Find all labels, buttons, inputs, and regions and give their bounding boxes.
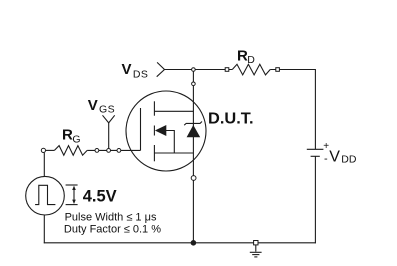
- svg-text:Pulse Width ≤ 1 μs: Pulse Width ≤ 1 μs: [65, 211, 157, 223]
- wire: pulse generator to bottom rail: [43, 215, 45, 244]
- battery VDD negative plate: [311, 155, 320, 157]
- probe arrow VDS test point: [157, 62, 165, 76]
- node circle on drain lead: [192, 82, 196, 86]
- mosfet body wire to source: [166, 131, 175, 154]
- terminal square right of RD: [276, 68, 280, 72]
- wire: bottom ground rail: [44, 242, 316, 244]
- node circle at RG left: [41, 148, 45, 152]
- node circle at drain rail junction: [192, 68, 196, 72]
- probe stem VGS test point: [103, 115, 115, 148]
- svg-text:-: -: [324, 153, 328, 165]
- measurement extension lines for 4.5V: [66, 185, 78, 205]
- node circle gate terminal 1: [95, 149, 99, 153]
- label RD: [237, 47, 255, 66]
- svg-text:G: G: [72, 134, 80, 146]
- mosfet channel segment drain: [153, 101, 155, 115]
- wire: right rail upper (corner down to battery +): [314, 70, 316, 150]
- mosfet source stub: [154, 152, 193, 154]
- D.U.T. envelope circle: [126, 91, 206, 171]
- ground symbol: [250, 241, 262, 257]
- node circle gate terminal 2: [107, 149, 111, 153]
- svg-text:D: D: [247, 54, 255, 66]
- node circle on source lead: [191, 176, 196, 181]
- mosfet body arrow: [155, 125, 166, 136]
- wire: drain/source vertical through D.U.T.: [192, 70, 194, 243]
- double arrow 4.5V amplitude: [72, 186, 76, 204]
- mosfet channel segment source: [153, 145, 155, 161]
- mosfet gate bar: [140, 108, 142, 150]
- body diode triangle: [187, 125, 201, 137]
- svg-text:DD: DD: [341, 154, 357, 166]
- svg-text:GS: GS: [99, 103, 115, 115]
- svg-text:R: R: [62, 127, 73, 144]
- svg-text:+: +: [323, 141, 329, 152]
- svg-text:V: V: [122, 61, 132, 78]
- body diode cathode bar: [184, 122, 202, 126]
- wire: pulse generator to RG node: [43, 153, 45, 176]
- svg-text:DS: DS: [133, 69, 148, 81]
- label VDS: [122, 61, 149, 81]
- pulse waveform symbol: [35, 185, 55, 204]
- terminal square left of RD: [225, 68, 229, 72]
- svg-text:D.U.T.: D.U.T.: [208, 111, 254, 128]
- label RG: [62, 127, 81, 146]
- wire: top drain rail from VDS probe to top-right corner: [165, 69, 316, 71]
- battery VDD positive plate: [307, 148, 324, 150]
- svg-text:V: V: [329, 149, 340, 166]
- svg-text:4.5V: 4.5V: [83, 188, 117, 206]
- label VGS: [88, 97, 115, 115]
- svg-text:Duty Factor ≤ 0.1 %: Duty Factor ≤ 0.1 %: [64, 223, 161, 235]
- label VDD with polarity: [323, 141, 357, 166]
- wire: right rail lower (battery - down to bottom rail): [314, 156, 316, 243]
- wire: gate from RG to gate bar: [46, 149, 141, 151]
- resistor RG: [54, 146, 87, 156]
- svg-text:V: V: [88, 97, 98, 114]
- mosfet drain stub: [154, 110, 193, 112]
- mosfet channel segment body: [153, 126, 155, 136]
- resistor RD: [232, 64, 270, 75]
- junction dot at source to bottom rail: [191, 240, 197, 246]
- node circle gate terminal 3: [117, 149, 121, 153]
- pulse generator circle: [26, 176, 65, 215]
